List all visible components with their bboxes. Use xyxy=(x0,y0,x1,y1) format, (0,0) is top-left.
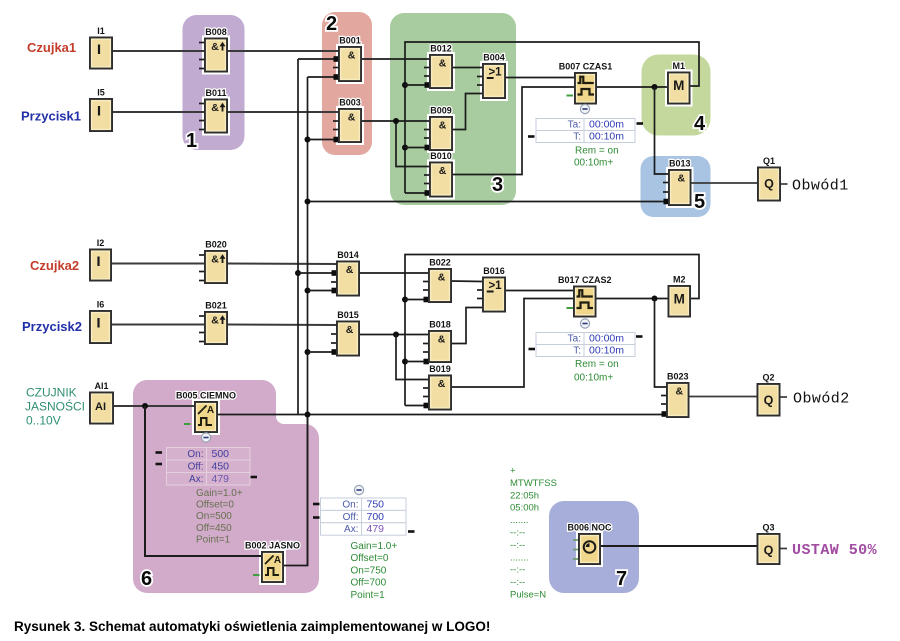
pin marker B018 in4 inverted xyxy=(424,359,430,365)
node dot B003 branch xyxy=(393,118,399,124)
timer B007 CZAS1 xyxy=(559,62,613,104)
block halo layer xyxy=(88,36,113,70)
svg-text:B009: B009 xyxy=(430,106,452,116)
svg-text:&: & xyxy=(211,315,219,327)
wire CZAS1 node down to B013 in1 xyxy=(655,87,670,174)
svg-text:7: 7 xyxy=(616,568,627,590)
svg-text:On=500: On=500 xyxy=(196,511,232,522)
wire AI1 to B005 xyxy=(113,405,195,407)
svg-text:--:--: --:-- xyxy=(510,540,525,551)
pin marker B014 in4 inverted xyxy=(332,288,338,294)
svg-text:&: & xyxy=(438,272,446,284)
wire feedback to B019 in4 xyxy=(405,405,429,407)
svg-text:Off=450: Off=450 xyxy=(196,523,232,534)
dash left CZAS1 xyxy=(528,135,535,138)
svg-text:22:05h: 22:05h xyxy=(510,490,539,501)
wire B002 output riser xyxy=(283,415,308,566)
svg-text:700: 700 xyxy=(367,511,385,523)
svg-text:&: & xyxy=(211,254,219,266)
svg-text:B017 CZAS2: B017 CZAS2 xyxy=(558,275,612,285)
svg-text:On:: On: xyxy=(187,449,203,460)
svg-text:Q: Q xyxy=(764,544,774,558)
dash left CIEMNO row2 xyxy=(156,463,163,466)
svg-text:00:10m: 00:10m xyxy=(589,131,624,143)
gate B009 AND xyxy=(424,106,452,151)
svg-text:A: A xyxy=(274,555,281,566)
svg-text:Przycisk1: Przycisk1 xyxy=(21,109,81,124)
analog threshold B002 JASNO xyxy=(245,541,300,583)
svg-text:Offset=0: Offset=0 xyxy=(351,553,389,564)
svg-text:B011: B011 xyxy=(205,88,226,98)
svg-text:Ta:: Ta: xyxy=(568,334,581,345)
group region 7 (weekly clock) xyxy=(549,501,639,593)
analog input AI1 xyxy=(90,381,113,424)
timer B017 CZAS2 xyxy=(558,275,612,317)
wire B010 to B007 in2 xyxy=(452,87,575,175)
svg-text:Q: Q xyxy=(764,177,774,191)
wire B022 to B016 in1 xyxy=(451,280,483,283)
svg-text:B016: B016 xyxy=(483,266,505,276)
node dot net B at CIEMNO crossing xyxy=(305,412,311,418)
wire I6 to B021 xyxy=(111,324,205,326)
svg-text:Ax:: Ax: xyxy=(344,524,358,535)
gate B004 OR xyxy=(477,53,505,99)
wire CZAS2 node down to B023 in1 xyxy=(655,299,668,388)
node dot net B to B015 in4 xyxy=(305,349,311,355)
input I6 xyxy=(90,300,111,344)
group region 1 (edge-AND input gating) xyxy=(183,15,245,150)
svg-text:00:10m: 00:10m xyxy=(589,345,624,357)
svg-text:B014: B014 xyxy=(337,250,359,260)
svg-text:M2: M2 xyxy=(673,275,686,285)
svg-text:479: 479 xyxy=(212,473,230,485)
node dot feedback to B018 xyxy=(402,359,408,365)
dash left CIEMNO row1 xyxy=(156,451,163,454)
wire B023 to Q2 xyxy=(689,396,758,398)
wire B019 to B017 in2 xyxy=(451,299,574,388)
svg-text:00:10m+: 00:10m+ xyxy=(574,158,613,169)
marker M1 xyxy=(668,61,690,104)
svg-text:1: 1 xyxy=(186,130,197,152)
wire B017 output to M2 xyxy=(596,298,669,300)
svg-text:Q: Q xyxy=(764,394,774,408)
svg-text:A: A xyxy=(207,405,214,416)
weekly clock B006 NOC xyxy=(567,523,612,565)
svg-text:&: & xyxy=(677,173,685,185)
dash left CZAS2 xyxy=(529,348,536,351)
svg-text:&: & xyxy=(438,334,446,346)
svg-text:MTWTFSS: MTWTFSS xyxy=(510,478,557,489)
svg-text:Point=1: Point=1 xyxy=(351,590,386,601)
wire B008 to B001 in1 xyxy=(227,50,339,52)
wire feedback to B009 in4 xyxy=(405,147,430,149)
svg-text:USTAW 50%: USTAW 50% xyxy=(792,542,878,559)
svg-text:Rysunek 3. Schemat automatyki: Rysunek 3. Schemat automatyki oświetleni… xyxy=(14,619,490,634)
node dot net B to B013 long wire xyxy=(305,199,311,205)
group region 6 (analog thresholds) xyxy=(133,380,319,593)
collapse icon B007 xyxy=(580,104,589,113)
svg-text:B019: B019 xyxy=(429,364,451,374)
collapse icon B005 xyxy=(201,433,210,442)
svg-text:I1: I1 xyxy=(97,26,105,36)
svg-text:B005 CIEMNO: B005 CIEMNO xyxy=(176,391,236,401)
wire M2 feedback loop xyxy=(405,255,699,406)
svg-text:6: 6 xyxy=(141,568,152,590)
svg-text:750: 750 xyxy=(367,498,385,510)
wire M1 feedback loop xyxy=(405,42,699,193)
svg-text:4: 4 xyxy=(694,113,706,135)
wire feedback to B010 in4 xyxy=(405,192,430,194)
svg-text:B020: B020 xyxy=(205,240,227,250)
node dot net B to B003 xyxy=(305,137,311,143)
svg-text:B023: B023 xyxy=(667,372,689,382)
svg-text:M1: M1 xyxy=(672,61,685,71)
svg-text:&: & xyxy=(348,50,356,62)
svg-text:B022: B022 xyxy=(429,258,451,268)
svg-text:Gain=1.0+: Gain=1.0+ xyxy=(351,541,398,552)
collapse icon B017 xyxy=(580,319,589,328)
gate B012 AND xyxy=(424,44,452,89)
svg-text:Ax:: Ax: xyxy=(189,474,203,485)
pin minus B002 xyxy=(253,574,260,576)
wire I1 to B008 xyxy=(112,50,205,52)
svg-text:T:: T: xyxy=(573,346,581,357)
svg-text:&: & xyxy=(211,102,219,114)
wire I5 to B011 xyxy=(112,111,205,113)
wire Q3 output stub xyxy=(780,548,788,550)
gate B015 AND xyxy=(331,310,359,356)
wire B001 to B012 in1 xyxy=(361,58,430,60)
analog threshold B005 CIEMNO xyxy=(176,391,236,433)
svg-text:&: & xyxy=(439,58,447,70)
wire B020 to B014 in1 xyxy=(227,263,337,266)
wire net B to B003 in4 xyxy=(308,139,335,141)
wire feedback to B018 in4 xyxy=(405,361,429,363)
pin marker B012 in4 inverted xyxy=(425,82,431,88)
svg-text:B018: B018 xyxy=(429,320,451,330)
input I2 xyxy=(90,238,111,281)
pin marker B001 in2 inverted xyxy=(334,56,340,62)
collapse icon B002 xyxy=(354,485,363,494)
pin marker B022 in4 inverted xyxy=(424,297,430,303)
svg-text:B002 JASNO: B002 JASNO xyxy=(245,541,300,551)
group region 4 (marker M1) xyxy=(642,55,711,136)
svg-text:Obwód2: Obwód2 xyxy=(793,391,850,408)
svg-text:00:00m: 00:00m xyxy=(589,333,624,345)
pin marker B015 in4 inverted xyxy=(332,349,338,355)
wire CIEMNO output long net to B023 in4 xyxy=(217,414,667,416)
gate B010 AND xyxy=(424,151,452,197)
pin marker B019 in4 inverted xyxy=(424,403,430,409)
svg-text:00:00m: 00:00m xyxy=(589,119,624,131)
pin marker B014 in2 inverted xyxy=(332,270,338,276)
svg-text:B003: B003 xyxy=(339,98,361,108)
output Q2 xyxy=(758,373,780,416)
svg-text:Q2: Q2 xyxy=(762,373,774,383)
pin marker B003 in4 inverted xyxy=(334,137,340,143)
svg-text:M: M xyxy=(674,292,685,307)
svg-text:--:--: --:-- xyxy=(510,528,525,539)
group region 3 (logic AND/OR net) xyxy=(390,13,516,205)
svg-text:&: & xyxy=(211,41,219,53)
svg-text:I5: I5 xyxy=(97,88,105,98)
pin marker B023 in4 inverted xyxy=(662,411,668,417)
node junction B015 output down xyxy=(396,335,429,380)
marker M2 xyxy=(669,275,691,317)
pin minus B007 xyxy=(567,95,574,97)
gate B023 output AND xyxy=(661,372,689,418)
gate B013 output AND xyxy=(663,159,691,206)
node dot CZAS1 output xyxy=(652,84,658,90)
svg-text:B008: B008 xyxy=(205,27,227,37)
svg-text:&: & xyxy=(346,324,354,336)
wire Q1 output stub xyxy=(780,183,788,185)
wire B014 to B022 in1 xyxy=(359,272,429,274)
wire B016 to B017 in1 xyxy=(505,290,574,292)
group region 5 (output AND B013) xyxy=(641,156,711,217)
pin minus B017 xyxy=(567,307,574,309)
svg-text:479: 479 xyxy=(367,523,385,535)
wire B021 to B015 in1 xyxy=(227,324,337,327)
wire net A to B001 in2 xyxy=(298,58,334,60)
wire B012 to B004 in1 xyxy=(452,67,483,69)
svg-text:05:00h: 05:00h xyxy=(510,503,539,514)
node dot feedback to B022 xyxy=(402,297,408,303)
wire net B to B014 in4 xyxy=(308,290,333,292)
pin marker B010 in4 inverted xyxy=(425,190,431,196)
svg-text:Offset=0: Offset=0 xyxy=(196,500,234,511)
svg-text:.......: ....... xyxy=(510,552,528,563)
svg-text:&: & xyxy=(438,378,446,390)
svg-text:Gain=1.0+: Gain=1.0+ xyxy=(196,488,243,499)
svg-text:M: M xyxy=(673,78,684,93)
dash right CZAS2 xyxy=(636,335,643,338)
pin minus B005 xyxy=(184,423,191,425)
parameter window CZAS1 xyxy=(536,119,635,143)
svg-text:&: & xyxy=(439,120,447,132)
svg-text:B013: B013 xyxy=(669,159,691,169)
svg-text:B021: B021 xyxy=(205,301,227,311)
svg-text:.......: ....... xyxy=(510,515,528,526)
node dot AI1 branch xyxy=(142,403,148,409)
output Q1 xyxy=(758,156,780,201)
wire B015 to B018 in1 xyxy=(359,334,429,336)
svg-text:+: + xyxy=(510,466,516,477)
input I1 xyxy=(90,26,112,69)
svg-text:5: 5 xyxy=(694,191,705,213)
svg-text:I2: I2 xyxy=(97,238,105,248)
svg-text:T:: T: xyxy=(573,132,581,143)
node dot B015 branch xyxy=(393,332,399,338)
node dot net B to B014 in4 xyxy=(305,288,311,294)
svg-text:AI: AI xyxy=(95,401,106,413)
wire B013 to Q1 xyxy=(690,182,758,184)
svg-text:Pulse=N: Pulse=N xyxy=(510,590,546,601)
svg-text:--:--: --:-- xyxy=(510,565,525,576)
svg-text:&: & xyxy=(675,386,683,398)
svg-text:B010: B010 xyxy=(430,151,452,161)
node junction B003 output xyxy=(396,121,430,167)
wire I2 to B020 xyxy=(111,263,205,265)
wire B018 to B016 in4 xyxy=(451,308,483,344)
wire B007 output to M1 xyxy=(596,86,668,88)
gate B001 AND xyxy=(333,36,361,82)
svg-text:Point=1: Point=1 xyxy=(196,535,231,546)
node dot feedback to B009 xyxy=(402,145,408,151)
svg-text:3: 3 xyxy=(492,174,503,196)
group region 2 (channel AND stage) xyxy=(322,12,372,155)
wire feedback to B012 in4 xyxy=(405,84,430,86)
svg-text:Rem = on: Rem = on xyxy=(575,146,619,157)
svg-text:Off:: Off: xyxy=(343,512,359,523)
wire JASNO net to B013 in4 xyxy=(308,201,670,203)
wire Q2 output stub xyxy=(780,396,788,398)
svg-text:Obwód1: Obwód1 xyxy=(792,178,849,195)
dash right JASNO row3 xyxy=(408,530,415,533)
gate B018 AND xyxy=(423,320,451,363)
wire B004 to B007 in1 xyxy=(505,77,575,79)
svg-text:JASNOŚCI: JASNOŚCI xyxy=(25,399,85,414)
svg-text:AI1: AI1 xyxy=(94,381,108,391)
parameter window CIEMNO xyxy=(167,448,251,486)
gate B014 AND xyxy=(331,250,359,296)
gate B021 edge AND xyxy=(199,301,227,345)
wire net B to B015 in4 xyxy=(308,351,333,353)
svg-text:On=750: On=750 xyxy=(351,566,387,577)
svg-text:B015: B015 xyxy=(337,310,359,320)
node dot feedback to B012 xyxy=(402,82,408,88)
dash left JASNO row2 xyxy=(313,516,320,519)
wire vertical net A (CIEMNO) xyxy=(297,59,299,415)
svg-text:Q3: Q3 xyxy=(762,523,774,533)
wire B009 to B004 in4 xyxy=(452,94,483,130)
svg-text:CZUJNIK: CZUJNIK xyxy=(26,386,77,400)
svg-text:>1: >1 xyxy=(488,280,502,292)
node dot net A to B014 xyxy=(295,270,301,276)
gate B019 AND xyxy=(423,364,451,410)
gate B003 AND xyxy=(333,98,361,143)
gate B020 edge AND xyxy=(199,240,227,284)
parameter window CZAS2 xyxy=(536,333,635,357)
pin marker B009 in4 inverted xyxy=(425,145,431,151)
svg-text:Rem = on: Rem = on xyxy=(575,359,619,370)
svg-text:00:10m+: 00:10m+ xyxy=(574,373,613,384)
dash left JASNO row1 xyxy=(313,503,320,506)
svg-text:>1: >1 xyxy=(488,67,502,79)
svg-text:On:: On: xyxy=(342,499,358,510)
svg-text:2: 2 xyxy=(326,13,337,35)
svg-text:B012: B012 xyxy=(430,44,452,54)
wire B003 to B009 in1 xyxy=(361,120,430,122)
svg-text:&: & xyxy=(346,264,354,276)
svg-text:Ta:: Ta: xyxy=(568,120,581,131)
gate B011 edge AND xyxy=(199,88,227,133)
dash right CIEMNO row3 xyxy=(251,476,258,479)
svg-text:Off=700: Off=700 xyxy=(351,578,387,589)
dash right CZAS1 xyxy=(637,122,644,125)
svg-text:500: 500 xyxy=(212,448,230,460)
svg-text:B006 NOC: B006 NOC xyxy=(567,523,612,533)
wire B011 to B003 in1 xyxy=(227,111,339,113)
svg-text:Czujka1: Czujka1 xyxy=(27,40,76,55)
wire net A to B014 in2 xyxy=(298,272,332,274)
parameter window JASNO xyxy=(321,498,407,535)
svg-text:B007 CZAS1: B007 CZAS1 xyxy=(559,62,613,72)
pin marker B001 in4 inverted xyxy=(334,74,340,80)
pin marker B013 in4 inverted xyxy=(664,199,670,205)
gate B022 AND xyxy=(423,258,451,303)
svg-text:I6: I6 xyxy=(97,300,105,310)
svg-text:B004: B004 xyxy=(483,53,505,63)
wire B006 to Q3 xyxy=(600,545,758,547)
input I5 xyxy=(90,88,112,132)
wire AI1 branch down to B002 xyxy=(145,406,262,556)
wire feedback to B022 in4 xyxy=(405,299,429,301)
svg-text:450: 450 xyxy=(212,461,230,473)
svg-text:Przycisk2: Przycisk2 xyxy=(22,319,82,334)
wire vertical net B (JASNO) xyxy=(307,77,309,566)
svg-text:Czujka2: Czujka2 xyxy=(30,258,79,273)
svg-text:--:--: --:-- xyxy=(510,577,525,588)
gate B008 edge AND xyxy=(199,27,227,72)
gate B016 OR xyxy=(477,266,505,312)
svg-text:Q1: Q1 xyxy=(763,156,775,166)
svg-text:&: & xyxy=(348,112,356,124)
svg-text:Off:: Off: xyxy=(188,462,204,473)
node dot CZAS2 output xyxy=(652,296,658,302)
wire net B to B001 in4 xyxy=(308,76,335,78)
svg-text:B001: B001 xyxy=(339,36,361,46)
output Q3 xyxy=(758,523,780,565)
svg-text:&: & xyxy=(439,165,447,177)
svg-text:0..10V: 0..10V xyxy=(26,414,61,428)
